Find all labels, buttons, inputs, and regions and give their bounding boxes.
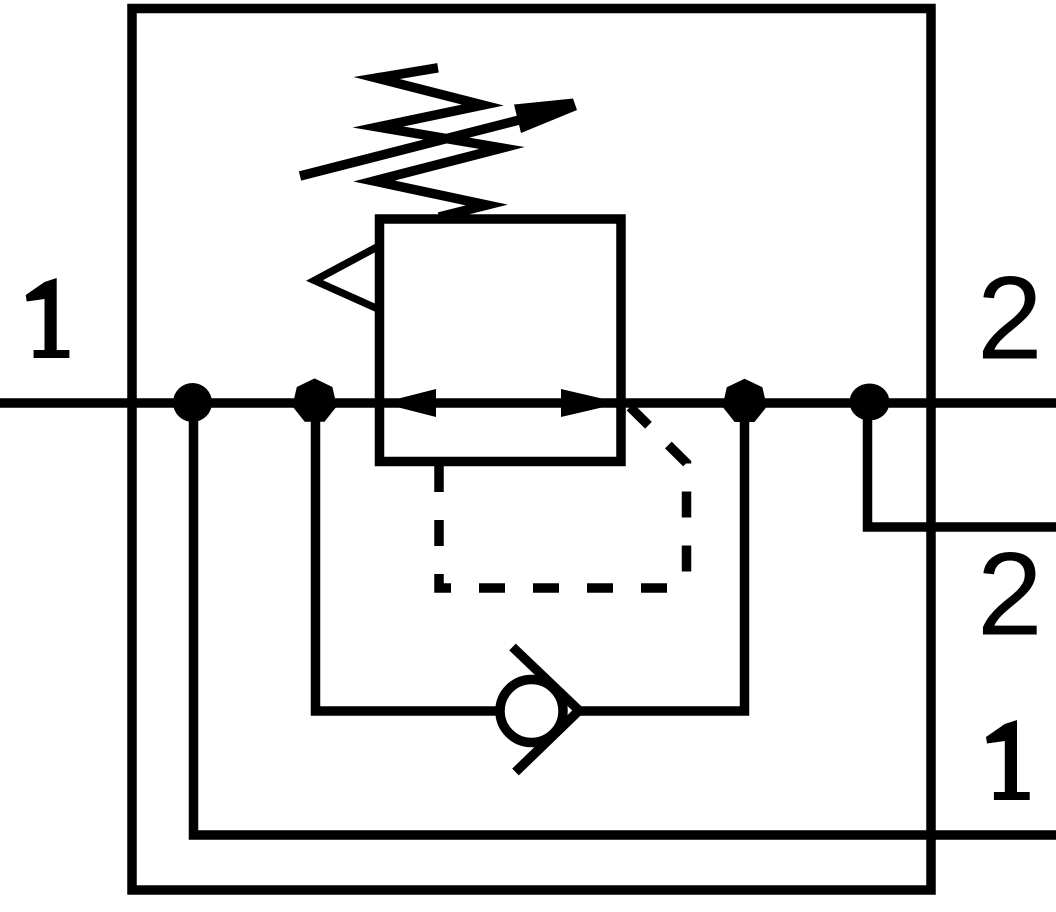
wire check-valve branch right: [579, 403, 745, 711]
check valve ball: [500, 680, 563, 743]
check valve seat: [513, 647, 580, 772]
node on line 1: [173, 383, 212, 422]
wire main line 1-2: [0, 398, 1056, 408]
flow arrow right: [561, 389, 621, 417]
regulator body U1: [380, 219, 622, 462]
wire port2 branch: [868, 403, 1056, 527]
node check branch left: [292, 378, 336, 421]
node port2 branch: [850, 384, 890, 421]
adjustment arrowhead: [514, 99, 577, 134]
flow arrow left: [381, 389, 436, 417]
svg-text:2: 2: [977, 253, 1043, 385]
wire port1 branch: [194, 408, 1056, 836]
adjustment arrow shaft: [300, 116, 535, 176]
enclosure border: [132, 9, 931, 891]
svg-text:2: 2: [977, 529, 1043, 661]
vent triangle: [315, 247, 378, 309]
spring: [374, 68, 502, 217]
pilot line (dashed) lower run: [439, 466, 687, 588]
port label 1 (bottom right): [986, 720, 1030, 800]
port label 1 (left): [26, 278, 70, 358]
pilot line (dashed) upper run: [630, 407, 687, 588]
node check branch right: [722, 379, 766, 422]
wire check-valve branch left: [316, 403, 498, 711]
